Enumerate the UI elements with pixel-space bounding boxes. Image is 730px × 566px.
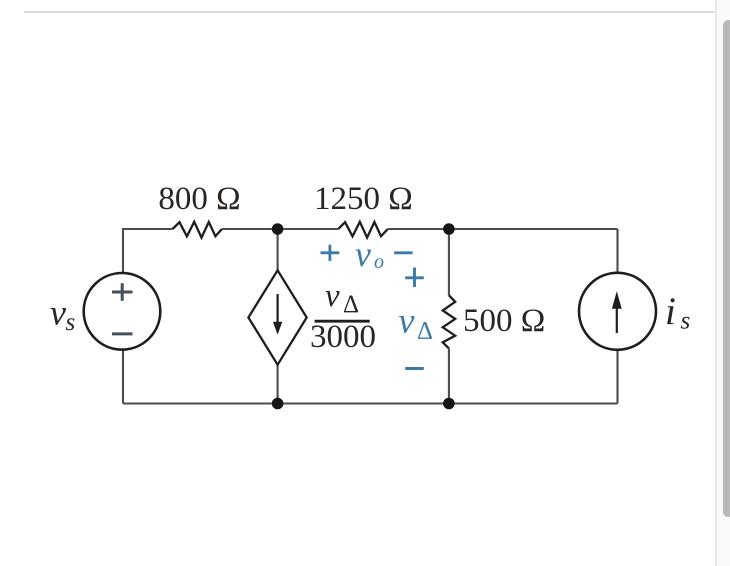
top divider rule [24,11,716,13]
blue polarity minus for vo [394,251,413,254]
svg-text:1250 Ω: 1250 Ω [314,181,413,217]
node dot top right [443,223,455,235]
wire: left branch vertical bottom [122,350,124,404]
svg-text:v: v [50,293,66,333]
wire: right branch vertical bottom [616,350,618,404]
wire: top-left segment from left corner to 800-ohm resistor [123,229,173,273]
svg-text:o: o [374,251,384,273]
svg-text:s: s [66,309,76,336]
resistor R 500 ohm vertical zigzag [443,295,456,348]
wire: top right segment to right branch corner [388,228,618,230]
node dot bottom middle [272,398,284,410]
right scrollbar separator [715,0,717,566]
wire: top middle segment between 800-ohm and 1250-ohm [222,228,338,230]
wire: 500-ohm branch above resistor [448,229,450,295]
scrollbar track [717,0,730,566]
arrow inside diamond (downward) [277,294,279,324]
plus sign inside vs [112,283,133,301]
svg-text:500 Ω: 500 Ω [463,303,545,339]
resistor R 1250 ohm zigzag [338,222,388,238]
arrow inside is (upward) [616,305,618,333]
fraction bar [315,320,370,323]
svg-text:v: v [399,300,415,340]
dependent current source diamond [248,270,306,364]
wire: middle branch below dependent source [277,365,279,404]
current source is circle [579,273,656,350]
node dot top middle [272,223,284,235]
wire: middle branch above dependent source [277,229,279,270]
svg-text:v: v [325,278,340,314]
minus sign inside vs [112,332,133,335]
node dot bottom right [443,398,455,410]
svg-text:s: s [681,308,691,335]
svg-text:3000: 3000 [310,319,376,355]
blue polarity plus for vo [321,245,340,261]
scrollbar thumb [723,20,730,517]
blue polarity plus for v-delta [405,268,424,288]
svg-text:800 Ω: 800 Ω [158,181,240,217]
wire: bottom rail [123,402,618,404]
resistor R 800 ohm zigzag [173,222,222,238]
svg-text:Δ: Δ [343,291,359,318]
svg-text:Δ: Δ [417,317,433,344]
svg-text:v: v [355,234,371,274]
svg-text:i: i [665,290,676,333]
voltage source vs circle [84,273,161,350]
wire: 500-ohm branch below resistor [448,348,450,403]
blue polarity minus for v-delta [405,367,424,370]
wire: right branch vertical top [616,229,618,273]
